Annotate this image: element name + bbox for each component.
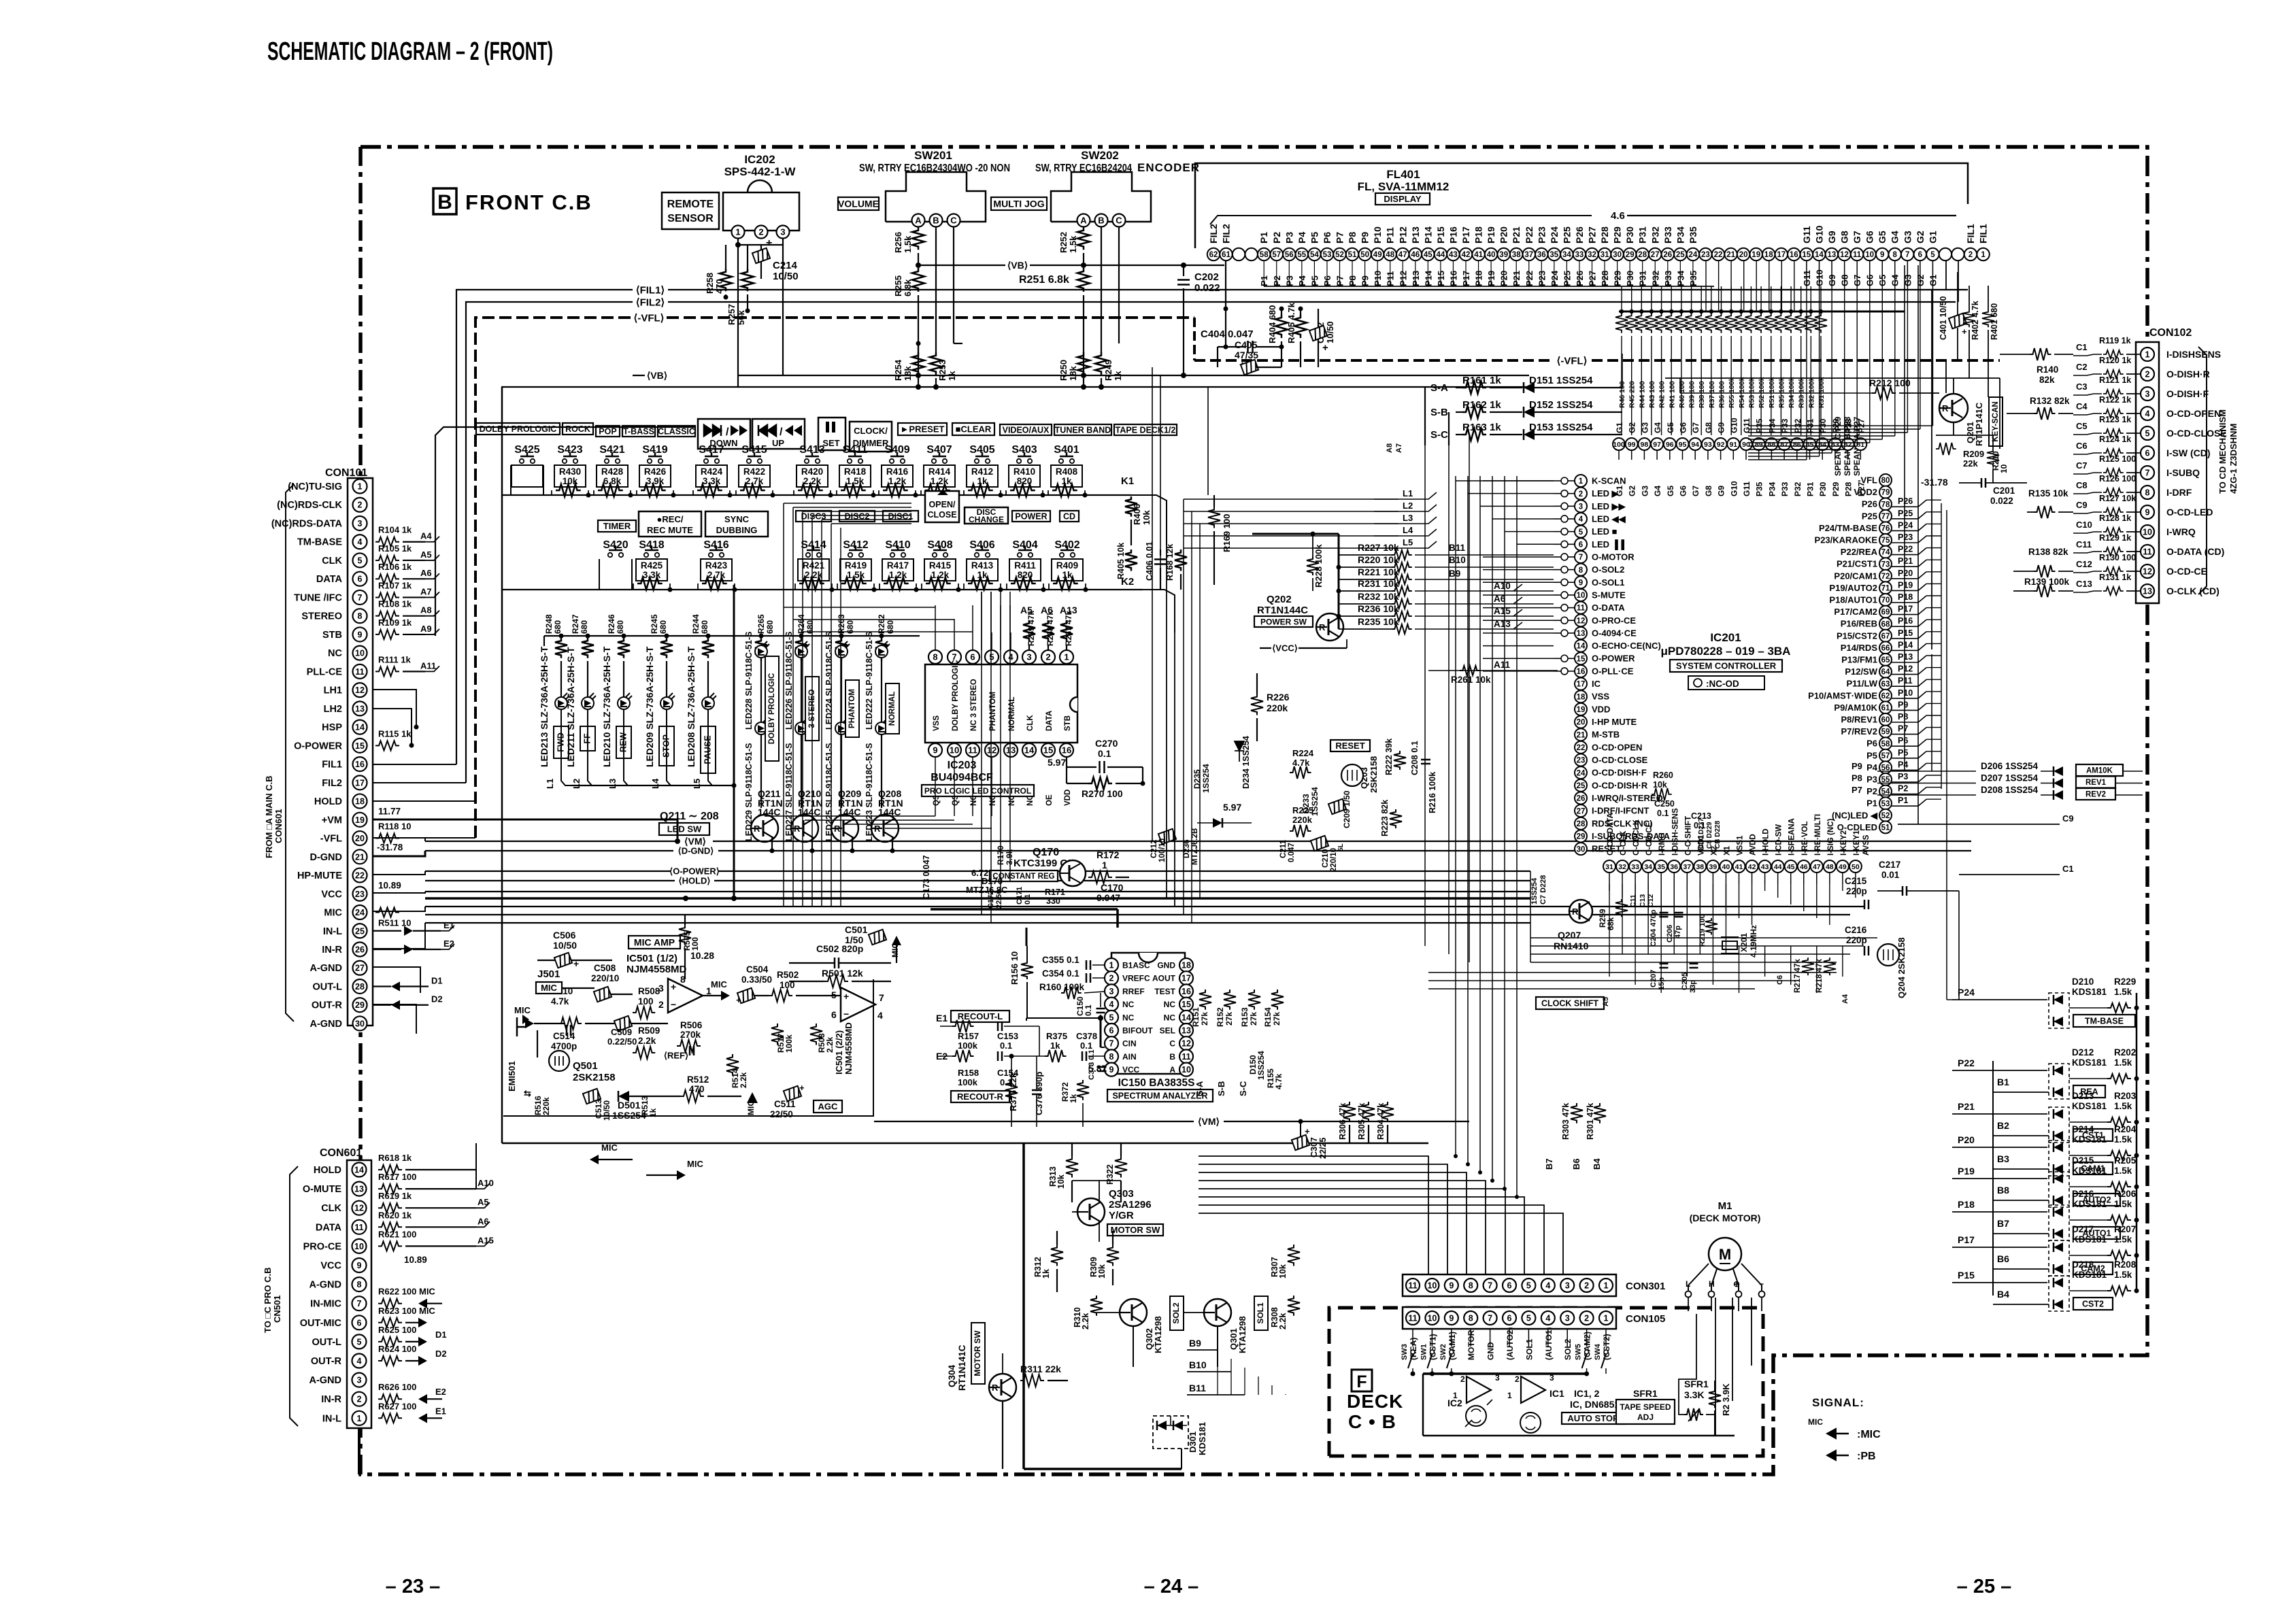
IC201 pin 76 P24/TM-BASE [1879, 522, 1892, 534]
svg-text:28: 28 [1638, 251, 1647, 259]
MOSFET Q501 2SK2158 [549, 1051, 569, 1071]
svg-text:IC201: IC201 [1710, 631, 1741, 644]
svg-text:5: 5 [1930, 251, 1935, 259]
svg-text:26: 26 [355, 945, 365, 955]
svg-text:SOL1: SOL1 [1524, 1338, 1534, 1360]
svg-text:R37 100: R37 100 [1708, 381, 1716, 408]
deck C.B dashed box [1329, 1308, 1763, 1456]
svg-text:R424: R424 [701, 467, 723, 477]
svg-text:2SK2158: 2SK2158 [573, 1072, 616, 1083]
svg-text:⟨VCC⟩: ⟨VCC⟩ [1272, 643, 1298, 654]
svg-text:P10: P10 [1372, 226, 1383, 243]
svg-text:40: 40 [1722, 863, 1730, 871]
IC150 pin 6 BIFOUT [1105, 1024, 1118, 1037]
svg-text:P11/LW: P11/LW [1846, 679, 1877, 689]
wires IC201 bottom fanout [1609, 884, 1610, 891]
svg-text:TO CD MECHANISM: TO CD MECHANISM [2217, 409, 2228, 494]
svg-text:13: 13 [1577, 630, 1586, 638]
svg-text:CLOCK SHIFT: CLOCK SHIFT [1541, 999, 1598, 1009]
svg-text:P3: P3 [1284, 232, 1294, 243]
svg-text:7: 7 [879, 992, 884, 1003]
svg-text:22/50: 22/50 [770, 1109, 793, 1119]
svg-text:64: 64 [1881, 669, 1890, 677]
svg-text:R153: R153 [1240, 1007, 1250, 1027]
resistor R423 2.7k [701, 559, 732, 581]
svg-text:79: 79 [1881, 489, 1890, 497]
svg-text:13: 13 [355, 704, 365, 713]
svg-text:11: 11 [1408, 1281, 1417, 1291]
svg-text:P2: P2 [1866, 786, 1877, 796]
svg-text:BU4094BCF: BU4094BCF [931, 772, 993, 783]
diode D214b [2054, 1164, 2063, 1174]
svg-text:O-CD·DISH·F: O-CD·DISH·F [1592, 768, 1647, 778]
svg-text:15p: 15p [1658, 977, 1666, 990]
diode D217b [2054, 1264, 2063, 1274]
svg-text:2.2k: 2.2k [803, 476, 822, 486]
svg-text:1.5k: 1.5k [2114, 1234, 2132, 1245]
svg-text:3: 3 [1549, 1373, 1554, 1383]
svg-text:LED213 SLZ-736A-25H-S-T: LED213 SLZ-736A-25H-S-T [539, 646, 550, 767]
net tab VB on SW bus [918, 265, 1005, 266]
svg-text:7: 7 [1579, 554, 1583, 562]
svg-text:80: 80 [1881, 477, 1890, 485]
svg-text:P27: P27 [1587, 226, 1598, 243]
svg-text:G7: G7 [1691, 486, 1701, 496]
svg-text:C13: C13 [1639, 894, 1647, 907]
svg-text:35: 35 [1657, 863, 1665, 871]
svg-text:12: 12 [1182, 1039, 1191, 1049]
svg-text:R157: R157 [958, 1031, 979, 1041]
svg-text:C9: C9 [2062, 813, 2074, 824]
svg-text:R: R [754, 824, 760, 834]
svg-text:R135 10k: R135 10k [2028, 488, 2068, 498]
IC203 pin 2 [1041, 650, 1055, 664]
wire MIC pin24 [373, 907, 425, 911]
CON102 pin 9 O-CD-LED [2141, 505, 2154, 519]
svg-text:R111 1k: R111 1k [378, 654, 411, 664]
svg-text:C • B: C • B [1348, 1411, 1396, 1432]
svg-text:P4: P4 [1866, 762, 1878, 773]
svg-text:VSS: VSS [1592, 692, 1609, 702]
transistor Q208 [871, 815, 899, 842]
svg-text::MIC: :MIC [1857, 1429, 1881, 1440]
svg-text:96: 96 [1666, 441, 1674, 449]
svg-text:5.97: 5.97 [1048, 757, 1066, 768]
svg-text:R413: R413 [971, 560, 994, 571]
wires CON301 bundle verticals from B tabs [1217, 1350, 1218, 1395]
svg-text:O-CDCLK: O-CDCLK [1632, 819, 1641, 856]
capacitor C209 1/50 [1328, 799, 1346, 815]
svg-text:R225: R225 [1292, 805, 1313, 815]
svg-text:1.2k: 1.2k [888, 476, 907, 486]
svg-text:1: 1 [1981, 251, 1986, 259]
LED LED223 [881, 658, 882, 722]
svg-text:D207 1SS254: D207 1SS254 [1981, 773, 2039, 783]
svg-text:9: 9 [1579, 579, 1583, 587]
svg-text:CON301: CON301 [1626, 1281, 1665, 1292]
svg-text:87: 87 [1780, 441, 1788, 449]
svg-text:3: 3 [1109, 987, 1114, 996]
svg-text:R158: R158 [958, 1068, 979, 1078]
svg-text:CON101: CON101 [325, 467, 367, 479]
svg-text:67: 67 [1881, 632, 1890, 641]
svg-text:P17/CAM2: P17/CAM2 [1834, 607, 1877, 617]
svg-text:CST2: CST2 [2082, 1300, 2104, 1309]
svg-text:7: 7 [2145, 469, 2150, 478]
resistor R430 10k [554, 465, 586, 487]
svg-text:R104 1k: R104 1k [378, 525, 412, 535]
label box TAPE DECK1/2 [1114, 424, 1177, 435]
svg-text:MIC: MIC [514, 1005, 531, 1015]
wires IC201 bottom long verticals [1609, 946, 1610, 977]
svg-text:C11: C11 [1629, 894, 1637, 907]
LED LED224 [841, 645, 842, 661]
resistor R412 1k [967, 465, 998, 487]
svg-text:R: R [1572, 907, 1579, 917]
svg-text:19: 19 [1577, 706, 1586, 714]
svg-text:34: 34 [1644, 863, 1652, 871]
svg-text:L3: L3 [1403, 513, 1413, 523]
svg-text:O-C·SHIFT: O-C·SHIFT [1684, 816, 1692, 856]
label box AUTO2 [2073, 1194, 2120, 1206]
svg-text:(AUTO2): (AUTO2) [1505, 1327, 1515, 1360]
svg-text:D214: D214 [2072, 1124, 2094, 1134]
wire CON101 pins 12-14 step [373, 690, 416, 727]
svg-text:C514: C514 [553, 1031, 575, 1041]
svg-text:C504: C504 [746, 964, 769, 975]
svg-text:40: 40 [1487, 251, 1496, 259]
svg-text:C307: C307 [1309, 1137, 1319, 1157]
svg-text:G5: G5 [1666, 422, 1675, 433]
svg-text:D151 1SS254: D151 1SS254 [1529, 375, 1593, 386]
IC201 bottom pin row 31-50 [1603, 860, 1615, 873]
IC201 pin 4 LED &#9664;&#9664; [1575, 513, 1587, 525]
svg-text:FIL2: FIL2 [322, 778, 342, 789]
svg-text:I-DISHSENS: I-DISHSENS [2166, 349, 2221, 360]
svg-text:L4: L4 [1403, 525, 1413, 535]
svg-text:G2: G2 [1915, 231, 1926, 243]
svg-text:G6: G6 [1864, 231, 1875, 243]
svg-text:G7: G7 [1852, 231, 1862, 243]
IC201 pin 26 I-WRQ/I-STEREO [1575, 792, 1587, 805]
transistor Q207 RN1410 [1569, 900, 1592, 923]
svg-text:I-RE·VOL: I-RE·VOL [1801, 822, 1809, 856]
svg-text:P15: P15 [1898, 628, 1913, 638]
svg-text:14: 14 [1182, 1013, 1191, 1022]
svg-text:R39 100: R39 100 [1688, 381, 1696, 408]
svg-text:AVSS: AVSS [1862, 834, 1871, 856]
svg-text:43: 43 [1449, 251, 1458, 259]
svg-text:R428: R428 [601, 467, 624, 477]
svg-text:E1: E1 [435, 1406, 446, 1416]
svg-text:2: 2 [1584, 1314, 1589, 1323]
svg-text:33: 33 [1631, 863, 1639, 871]
svg-text:C206: C206 [1666, 925, 1674, 943]
svg-text:I-DISH-SENS: I-DISH-SENS [1671, 808, 1679, 856]
svg-text:C171: C171 [1016, 887, 1024, 904]
svg-text:R422: R422 [743, 467, 765, 477]
svg-text:R138 82k: R138 82k [2028, 547, 2068, 557]
svg-text:3: 3 [1565, 1281, 1570, 1291]
wire bundle left of IC201 [1456, 480, 1554, 481]
svg-text:B11: B11 [1449, 543, 1466, 553]
svg-text:42: 42 [1748, 863, 1756, 871]
svg-text:C9: C9 [2076, 500, 2088, 510]
svg-text:CLOCK/: CLOCK/ [854, 426, 888, 436]
big junction lines under IC201 [1530, 945, 1864, 947]
svg-text:ROCK: ROCK [565, 424, 590, 434]
svg-text:O-DISH·F: O-DISH·F [2166, 388, 2209, 399]
svg-text:63: 63 [1881, 680, 1890, 688]
svg-text:P26: P26 [1574, 226, 1585, 243]
svg-text:R254: R254 [893, 359, 903, 381]
label box PRO LOGIC LED CONTROL [922, 785, 1034, 796]
wire -VFL vertical step [1193, 318, 1196, 360]
svg-text:C401 10/50: C401 10/50 [1939, 296, 1948, 340]
svg-text:C217: C217 [1879, 860, 1900, 870]
svg-text:R419: R419 [845, 560, 867, 571]
wires motor terminals down [1715, 1298, 1716, 1436]
svg-text:21: 21 [1726, 251, 1735, 259]
resistor bank R36-R55 top [1619, 311, 1905, 313]
svg-text:C201: C201 [1993, 486, 2015, 496]
svg-text:LED210 SLZ-736A-25H-S-T: LED210 SLZ-736A-25H-S-T [601, 646, 612, 767]
LED LED210 [623, 661, 624, 697]
svg-text:90: 90 [1742, 441, 1750, 449]
IC201 pin 68 P16/REB [1879, 618, 1892, 630]
svg-text:R108 1k: R108 1k [378, 599, 412, 609]
svg-text:6.8k: 6.8k [603, 476, 622, 486]
svg-text:R311 22k: R311 22k [1020, 1364, 1061, 1374]
verticals from switch bus to IC203 [935, 605, 936, 650]
vertical bundle x1740-1790 [1183, 499, 1184, 915]
svg-text:P9: P9 [1360, 232, 1371, 243]
svg-text:MOTOR SW: MOTOR SW [1111, 1225, 1160, 1235]
svg-text:100: 100 [690, 937, 700, 951]
svg-text:C202: C202 [1194, 271, 1219, 283]
svg-text:R221 10k: R221 10k [1358, 566, 1399, 577]
svg-text:P8/REV1: P8/REV1 [1841, 715, 1877, 725]
svg-text:7: 7 [1109, 1039, 1114, 1049]
svg-text:A11: A11 [1494, 660, 1511, 670]
svg-text:– 23 –: – 23 – [386, 1576, 441, 1597]
svg-text:4.7k: 4.7k [551, 996, 569, 1006]
IC201 pin 80 -VFL [1879, 474, 1892, 486]
svg-text:27: 27 [1651, 251, 1660, 259]
svg-text:C406 0.01: C406 0.01 [1145, 541, 1154, 581]
IC201 pin 14 O-ECHO&#183;CE(NC) [1575, 640, 1587, 652]
svg-text:A8: A8 [1386, 443, 1394, 453]
wires CON101 pins 25-30 [373, 923, 425, 949]
svg-text:L2: L2 [571, 779, 582, 789]
svg-text:11: 11 [1577, 605, 1586, 613]
svg-text::PB: :PB [1857, 1451, 1876, 1462]
svg-text:66: 66 [1881, 645, 1890, 653]
resistor R44 [1639, 309, 1643, 314]
svg-text:R: R [992, 1383, 999, 1393]
deck ground bus [1423, 1372, 1585, 1375]
svg-text:4: 4 [1008, 652, 1014, 662]
svg-text:O-DATA: O-DATA [1592, 603, 1625, 613]
IC150 body [1111, 953, 1185, 1074]
svg-text:POWER: POWER [1015, 512, 1047, 522]
svg-text:8: 8 [680, 974, 686, 985]
wire SFR1 leads [1679, 1314, 1696, 1415]
svg-text:C506: C506 [553, 930, 576, 941]
svg-text:■CLEAR: ■CLEAR [956, 424, 992, 435]
svg-text:R404 680: R404 680 [1267, 305, 1277, 343]
svg-text:49: 49 [1373, 251, 1382, 259]
svg-text:1/50: 1/50 [845, 934, 863, 945]
svg-text:C7: C7 [2076, 460, 2088, 471]
svg-text:R169 100: R169 100 [1222, 514, 1232, 552]
svg-text:47: 47 [1813, 863, 1821, 871]
svg-text:P32: P32 [1793, 481, 1803, 496]
svg-text:LED ▐▐: LED ▐▐ [1592, 539, 1625, 550]
svg-text:R235 10k: R235 10k [1358, 616, 1399, 627]
wire far right verticals [1931, 654, 1932, 771]
svg-text:P25: P25 [1561, 226, 1572, 243]
label box FF [580, 726, 595, 751]
svg-text:CHANGE: CHANGE [969, 515, 1004, 524]
label box DISC2 [839, 511, 875, 522]
svg-text:78: 78 [1881, 501, 1890, 509]
svg-text:R131 1k: R131 1k [2099, 573, 2131, 582]
svg-text:VCC: VCC [1122, 1065, 1140, 1075]
svg-text:P6: P6 [1322, 232, 1333, 243]
svg-text:R425: R425 [641, 560, 663, 571]
svg-text:15: 15 [355, 741, 365, 751]
svg-text:P26: P26 [1898, 496, 1913, 506]
svg-text:10: 10 [1865, 251, 1874, 259]
svg-text:R502: R502 [777, 970, 799, 980]
svg-text:G10: G10 [1729, 481, 1739, 496]
svg-text:A-GND: A-GND [309, 963, 342, 974]
svg-text:10: 10 [1427, 1314, 1437, 1323]
svg-text:2: 2 [1579, 490, 1583, 498]
svg-text:16: 16 [1062, 745, 1071, 756]
resistor R261 10k [1428, 670, 1558, 671]
svg-text:OUT-MIC: OUT-MIC [300, 1318, 342, 1329]
CON101 pin 29 OUT-R [353, 998, 367, 1012]
diode 5.21 junction [1213, 818, 1222, 828]
svg-text:9: 9 [933, 745, 937, 756]
svg-text:O-SOL2: O-SOL2 [1592, 564, 1624, 575]
svg-text:4.19MHz: 4.19MHz [1749, 925, 1758, 958]
wire bundle to CON301 [1199, 1156, 1428, 1276]
transistor Q302 KTA1298 [1120, 1299, 1147, 1326]
svg-text:A5: A5 [420, 549, 432, 560]
svg-text:1: 1 [2145, 350, 2150, 360]
svg-text:MIC: MIC [541, 983, 557, 993]
svg-text:16: 16 [355, 760, 365, 769]
svg-text:0.1: 0.1 [1084, 1004, 1093, 1016]
IC150 pin 3 RREF [1105, 984, 1118, 998]
label box REC/REC MUTE [639, 511, 701, 537]
svg-text:O-CD-CE: O-CD-CE [1645, 822, 1654, 856]
svg-text:R42 100: R42 100 [1658, 381, 1666, 408]
svg-text:G4: G4 [1653, 486, 1662, 496]
svg-text:P20: P20 [1958, 1134, 1975, 1145]
svg-text:1: 1 [1102, 860, 1107, 870]
svg-text:P5: P5 [1866, 750, 1877, 760]
svg-text:5: 5 [831, 989, 837, 1000]
svg-text:P20/CAM1: P20/CAM1 [1834, 571, 1877, 581]
LED LED226 [801, 645, 802, 661]
CON102 pin 6 I-SW (CD) [2141, 446, 2154, 460]
IC201 pin 66 P14/RDS [1879, 641, 1892, 654]
IC201 pin 64 P12/SW [1879, 666, 1892, 678]
resistor R51 [1769, 309, 1773, 314]
wires from C404 region down [1152, 367, 1153, 841]
svg-text:O-4094·CE: O-4094·CE [1592, 628, 1637, 638]
svg-text:10: 10 [1999, 464, 2009, 473]
diode D216b [2054, 1229, 2063, 1238]
svg-text:D210: D210 [2072, 977, 2094, 987]
svg-text:R118 10: R118 10 [378, 822, 411, 832]
svg-text:C: C [1116, 216, 1122, 226]
svg-text:680: 680 [658, 620, 668, 634]
svg-text:+VM: +VM [322, 815, 342, 826]
svg-text:P22: P22 [1524, 226, 1535, 243]
svg-text:R120 1k: R120 1k [2099, 356, 2131, 365]
svg-text:A: A [1169, 1065, 1175, 1075]
svg-text:R408: R408 [1056, 467, 1078, 477]
diode D213b [2054, 1131, 2063, 1140]
svg-text:REC MUTE: REC MUTE [647, 525, 693, 535]
svg-text:NC: NC [1122, 1013, 1135, 1022]
svg-text:R132 82k: R132 82k [2030, 396, 2070, 406]
svg-text:10: 10 [1427, 1281, 1437, 1291]
svg-text:VSS1: VSS1 [1737, 835, 1745, 856]
svg-text:61: 61 [1222, 251, 1230, 259]
svg-text:45: 45 [1787, 863, 1795, 871]
empty resistor box under S425 [512, 465, 543, 487]
svg-text:B: B [933, 216, 939, 226]
IC203 pin 14 [1022, 743, 1036, 757]
vertical lines x1150-1235 bundle [783, 503, 784, 907]
wire K2 long vertical [1174, 595, 1175, 907]
svg-text:C204 470p: C204 470p [1649, 909, 1658, 947]
svg-text:R: R [874, 824, 881, 834]
svg-text:SEL: SEL [1160, 1026, 1175, 1036]
svg-text:1k: 1k [1062, 570, 1073, 580]
IC201 pin 75 P23/KARAOKE [1879, 534, 1892, 546]
svg-text:B8: B8 [1997, 1185, 2009, 1196]
svg-text:MIC: MIC [687, 1159, 703, 1169]
svg-text:NC: NC [328, 648, 342, 659]
svg-text:P14/RDS: P14/RDS [1841, 643, 1878, 653]
svg-text:97: 97 [1653, 441, 1661, 449]
svg-text:R259: R259 [1599, 909, 1607, 928]
svg-text:6: 6 [357, 1318, 362, 1327]
svg-text:D212: D212 [2072, 1047, 2094, 1058]
svg-text:R232 10k: R232 10k [1358, 591, 1399, 602]
svg-text:C6: C6 [1776, 975, 1784, 985]
svg-text:⟨-VFL⟩: ⟨-VFL⟩ [633, 312, 664, 324]
svg-text:C378: C378 [1076, 1031, 1097, 1041]
IC203 pin 13 [1004, 743, 1018, 757]
svg-text:VOLUME: VOLUME [838, 199, 879, 209]
wire LED222 column down [881, 734, 882, 808]
svg-text:NC: NC [1122, 1000, 1135, 1009]
svg-text:R409: R409 [1056, 560, 1078, 571]
svg-text:S-B: S-B [1430, 407, 1448, 418]
IC201 pin 55 P3 [1879, 773, 1892, 785]
svg-text:R262: R262 [877, 614, 886, 634]
svg-text:P30: P30 [1624, 226, 1635, 243]
svg-text:RT1N141C: RT1N141C [957, 1344, 967, 1391]
